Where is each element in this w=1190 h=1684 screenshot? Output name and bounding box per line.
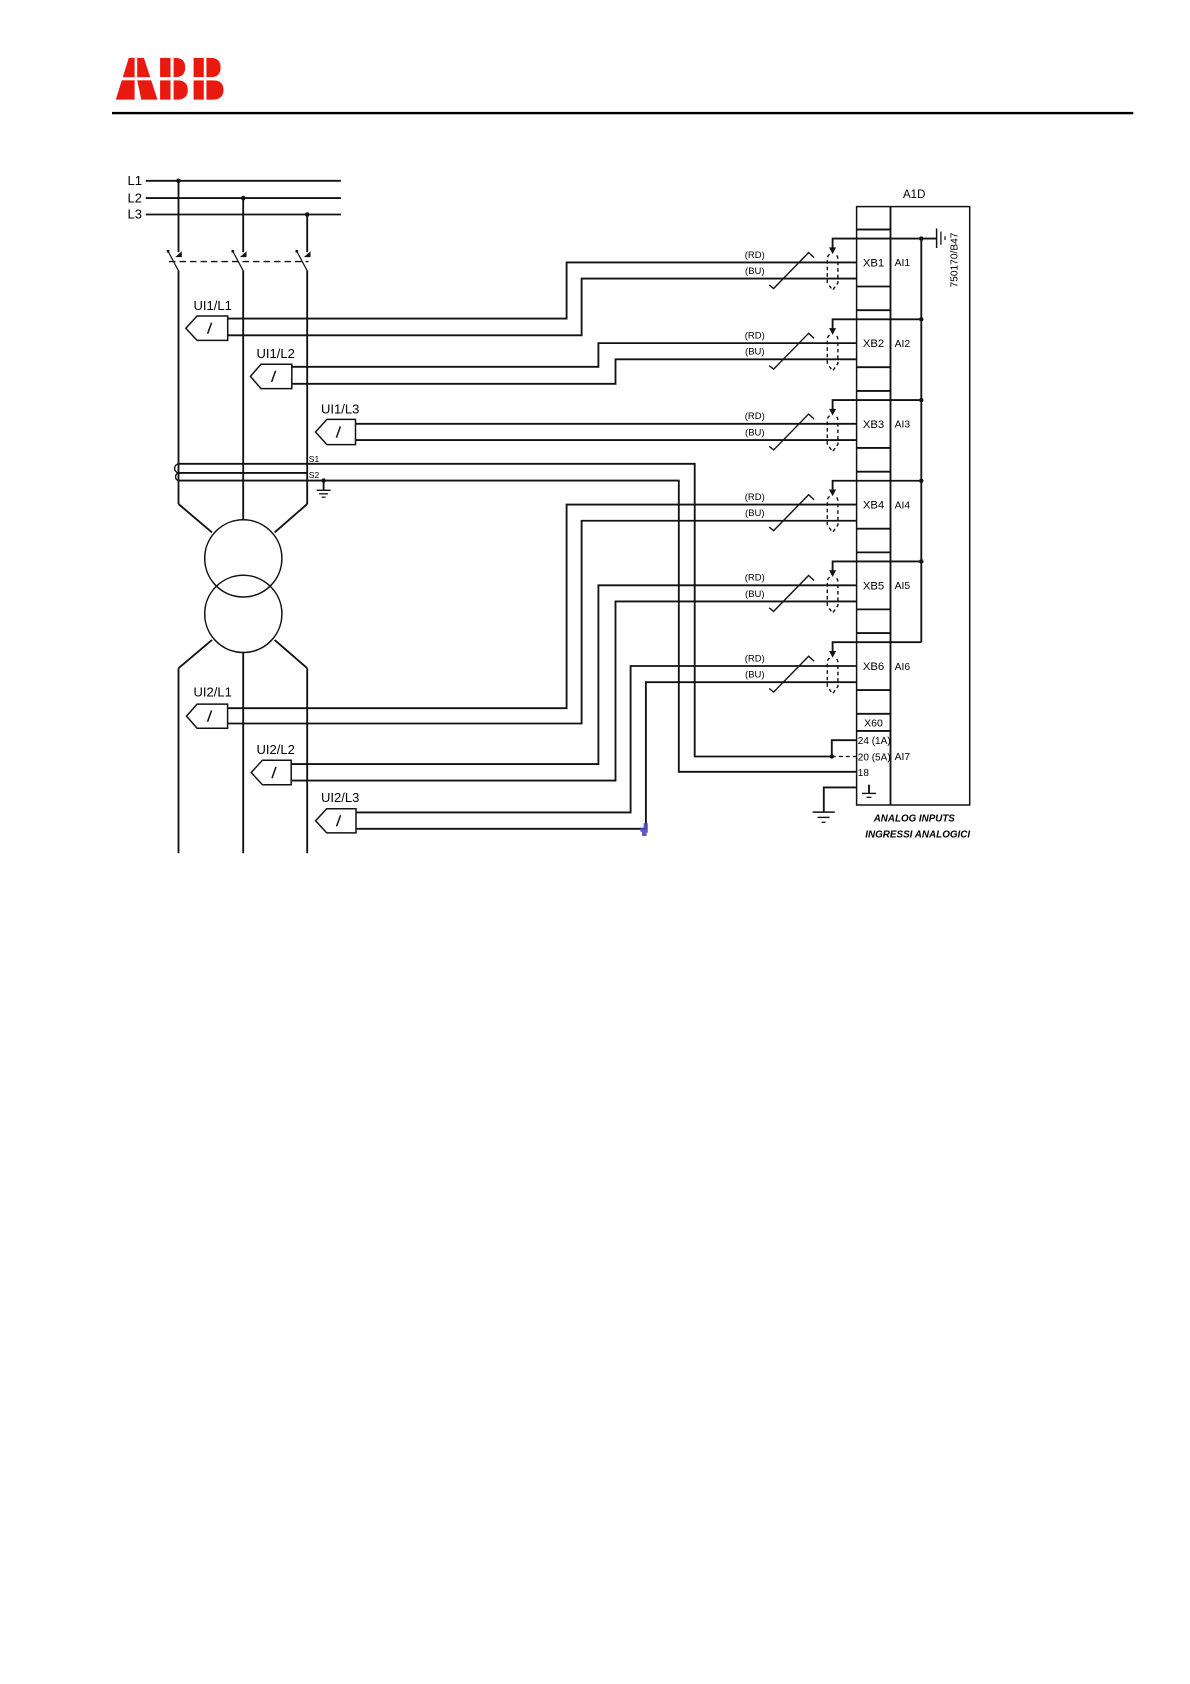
svg-text:AI6: AI6 [895, 662, 911, 673]
svg-text:A1D: A1D [903, 189, 925, 201]
svg-text:XB4: XB4 [863, 500, 884, 512]
svg-text:(RD): (RD) [745, 492, 765, 503]
svg-text:24 (1A): 24 (1A) [858, 736, 891, 747]
svg-text:(BU): (BU) [745, 266, 765, 277]
svg-text:UI1/L1: UI1/L1 [194, 298, 232, 313]
svg-text:UI2/L3: UI2/L3 [321, 790, 359, 805]
svg-text:AI5: AI5 [895, 581, 911, 592]
svg-text:S2: S2 [309, 470, 320, 480]
svg-text:(BU): (BU) [745, 508, 765, 519]
svg-text:(BU): (BU) [745, 347, 765, 358]
svg-text:(BU): (BU) [745, 589, 765, 600]
svg-text:20 (5A): 20 (5A) [858, 752, 891, 763]
svg-text:L2: L2 [128, 190, 142, 205]
svg-text:S1: S1 [309, 454, 320, 464]
svg-text:X60: X60 [864, 718, 883, 730]
svg-text:(BU): (BU) [745, 670, 765, 681]
svg-text:XB5: XB5 [863, 580, 884, 592]
svg-text:18: 18 [858, 768, 870, 779]
svg-text:L1: L1 [128, 173, 142, 188]
svg-text:INGRESSI ANALOGICI: INGRESSI ANALOGICI [865, 829, 970, 840]
svg-text:XB2: XB2 [863, 338, 884, 350]
svg-text:ANALOG INPUTS: ANALOG INPUTS [873, 814, 956, 825]
svg-text:AI1: AI1 [895, 258, 911, 269]
svg-text:AI2: AI2 [895, 339, 911, 350]
svg-text:UI2/L2: UI2/L2 [257, 742, 295, 757]
svg-text:(RD): (RD) [745, 653, 765, 664]
svg-text:AI3: AI3 [895, 420, 911, 431]
svg-text:750170/B47: 750170/B47 [950, 232, 961, 287]
svg-text:UI2/L1: UI2/L1 [194, 685, 232, 700]
svg-text:AI4: AI4 [895, 500, 911, 511]
svg-text:UI1/L2: UI1/L2 [257, 346, 295, 361]
svg-text:L3: L3 [128, 207, 142, 222]
svg-text:XB3: XB3 [863, 419, 884, 431]
svg-text:XB1: XB1 [863, 258, 884, 270]
svg-text:AI7: AI7 [895, 752, 911, 763]
svg-text:(BU): (BU) [745, 427, 765, 438]
svg-text:UI1/L3: UI1/L3 [321, 402, 359, 417]
svg-text:(RD): (RD) [745, 573, 765, 584]
svg-text:(RD): (RD) [745, 331, 765, 342]
svg-text:XB6: XB6 [863, 661, 884, 673]
svg-text:(RD): (RD) [745, 250, 765, 261]
svg-text:(RD): (RD) [745, 411, 765, 422]
